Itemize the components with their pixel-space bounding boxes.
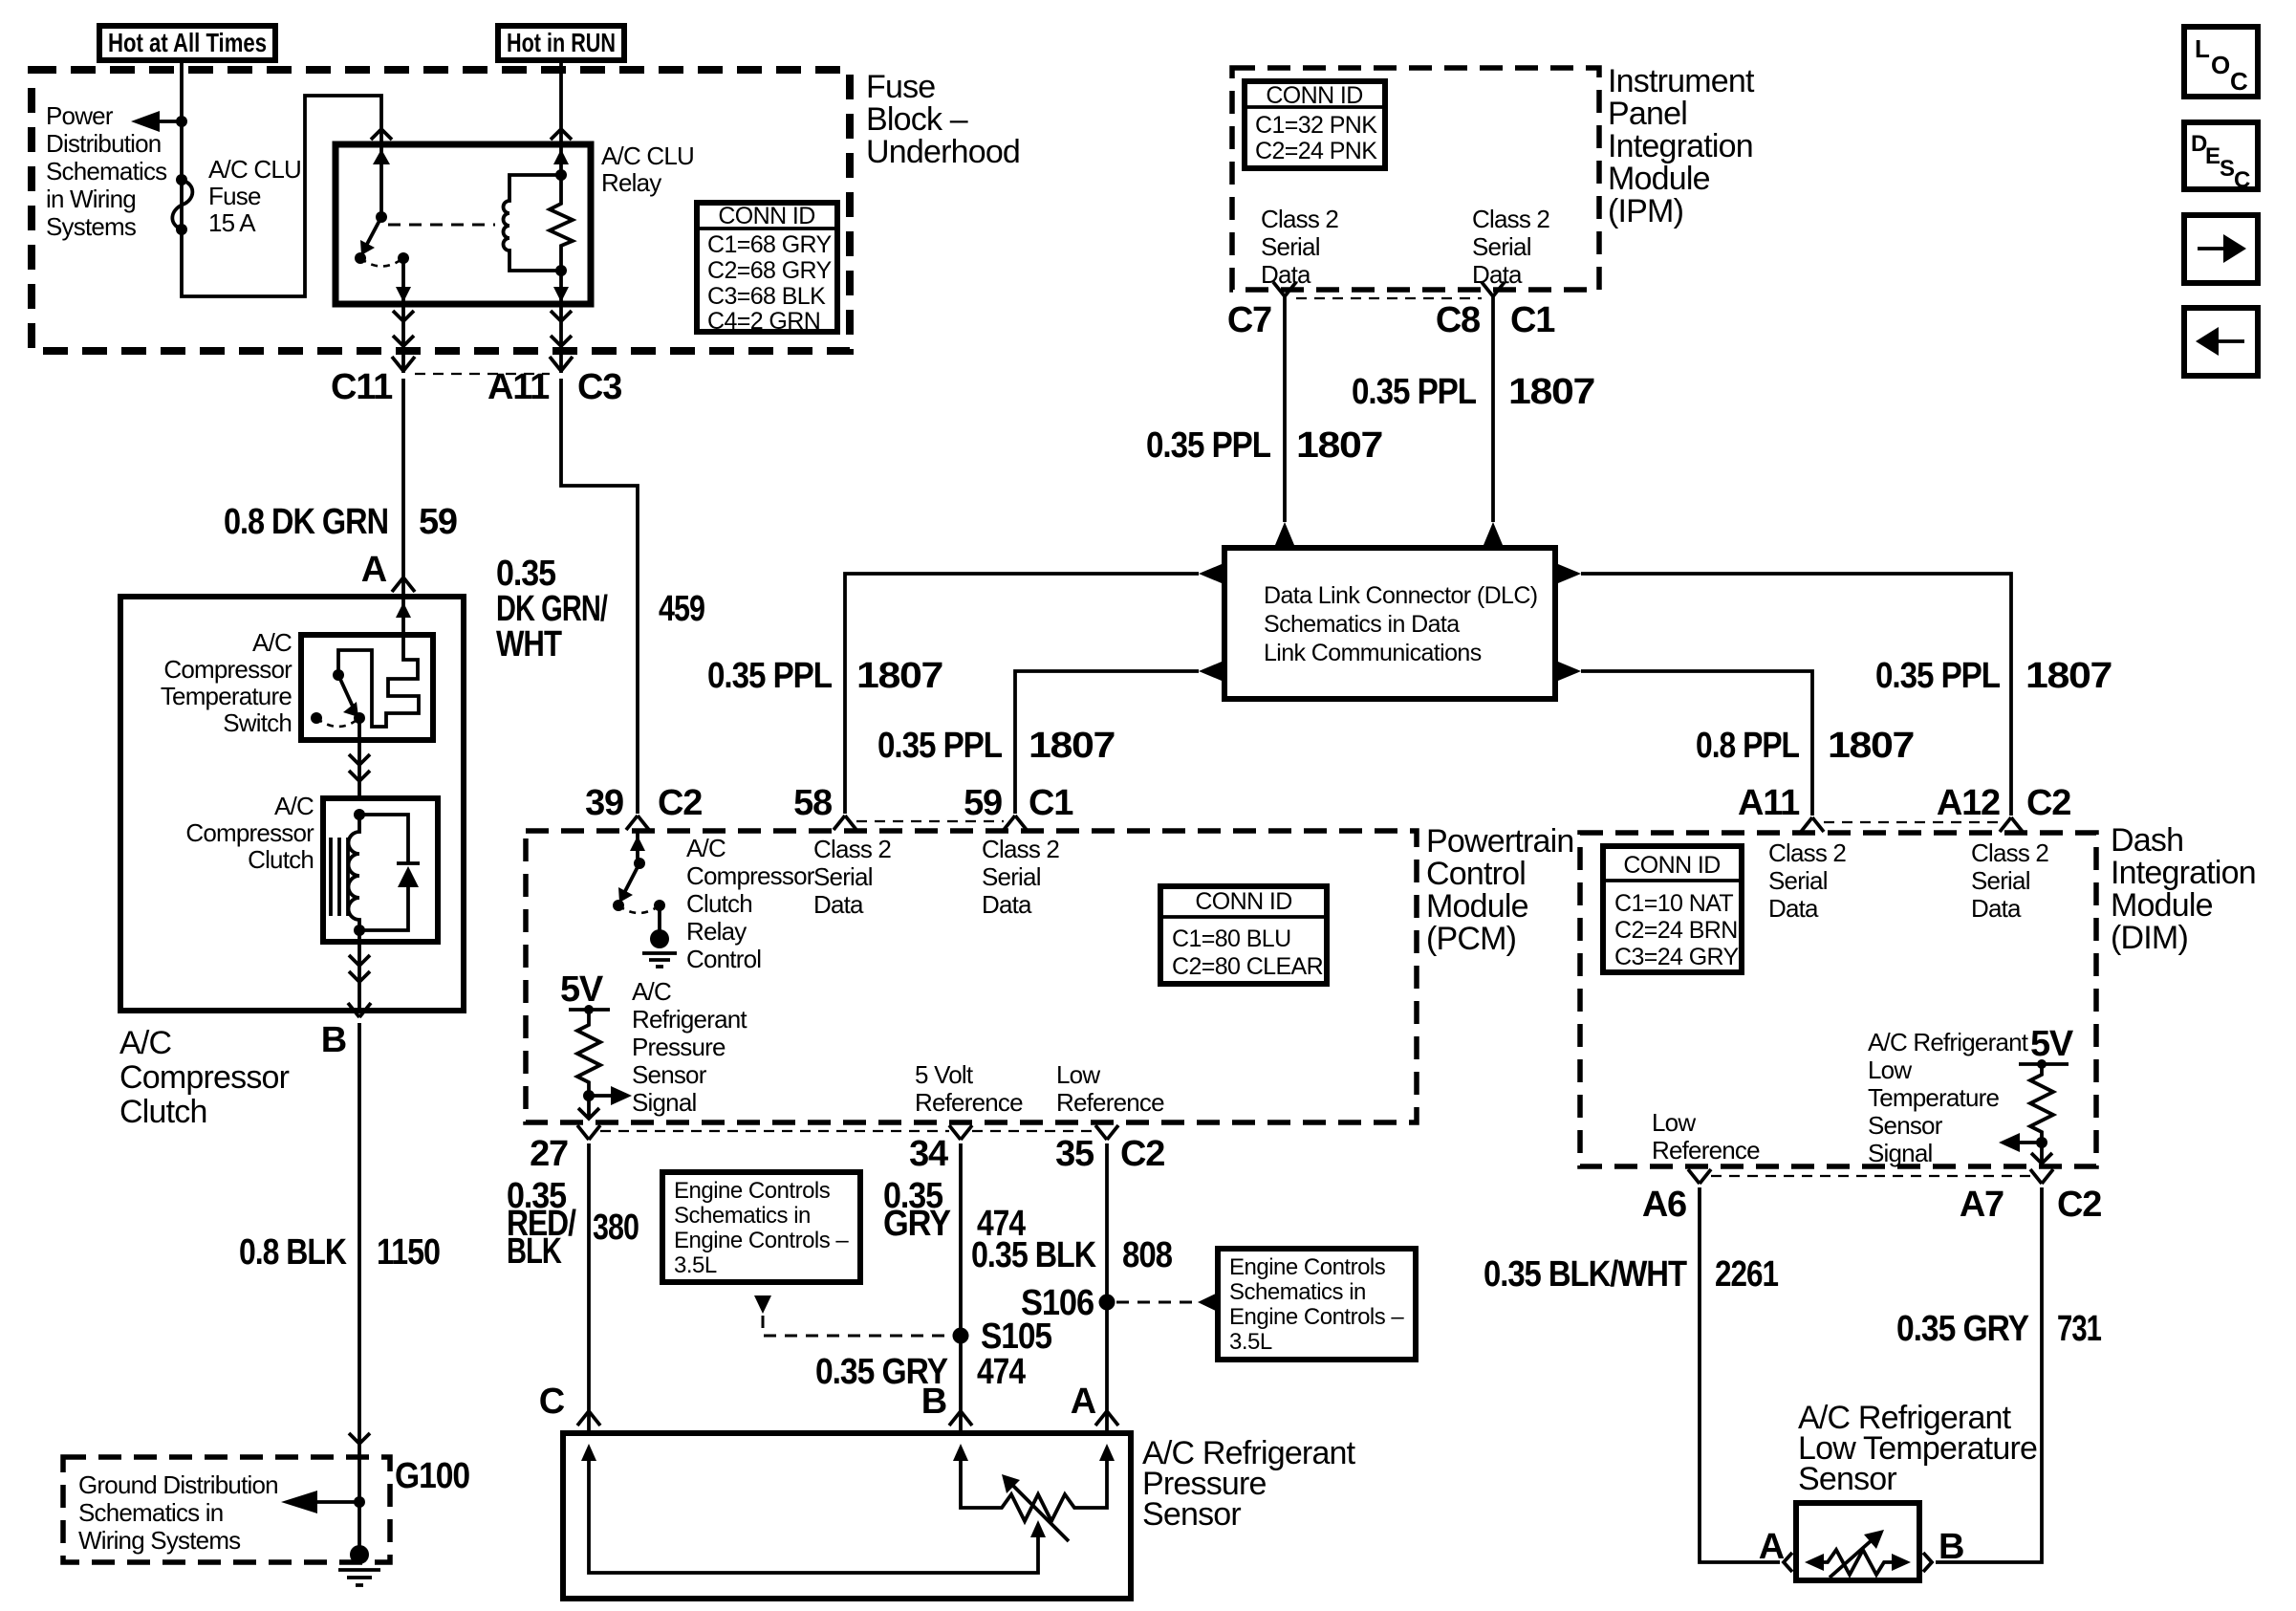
relay K1 resistor [550, 175, 573, 271]
svg-text:C2: C2 [2026, 783, 2070, 823]
svg-text:Module: Module [1426, 888, 1528, 925]
sensor pins C / B / A [577, 1411, 600, 1426]
svg-text:Engine Controls: Engine Controls [1229, 1254, 1386, 1280]
nav box DESC [2184, 122, 2258, 189]
svg-text:Panel: Panel [1608, 96, 1687, 132]
svg-text:Module: Module [1608, 161, 1710, 197]
svg-text:C11: C11 [331, 367, 393, 407]
svg-text:Power: Power [46, 101, 114, 130]
switch arm [333, 669, 344, 681]
relay K1 A/C CLU Relay [336, 144, 591, 304]
connector C11 / A11 forks [392, 357, 415, 371]
relay K1 switch contacts [379, 144, 383, 217]
ground tap arrow [316, 1500, 359, 1504]
svg-text:5 Volt: 5 Volt [915, 1060, 974, 1089]
svg-text:1807: 1807 [2025, 656, 2112, 696]
wire DLC to DIM pin A11 [1581, 671, 1812, 816]
svg-text:Data: Data [1472, 260, 1523, 289]
svg-text:Sensor: Sensor [1868, 1111, 1943, 1140]
svg-text:Fuse: Fuse [208, 182, 261, 210]
svg-text:Ground Distribution: Ground Distribution [78, 1470, 278, 1499]
ground G100 symbol [350, 1545, 369, 1564]
wire pin 27 to sensor pin C [587, 1143, 591, 1433]
svg-text:Wiring Systems: Wiring Systems [78, 1526, 241, 1555]
svg-text:0.8 DK GRN: 0.8 DK GRN [224, 502, 388, 542]
wire C3 to PCM pin 39 [561, 379, 638, 814]
wire from Hot in RUN [559, 60, 563, 144]
svg-text:Hot in RUN: Hot in RUN [507, 28, 616, 57]
svg-text:Schematics in: Schematics in [78, 1498, 223, 1527]
svg-text:1807: 1807 [856, 656, 942, 696]
svg-text:L: L [2195, 34, 2210, 63]
svg-text:1807: 1807 [1828, 726, 1914, 766]
svg-text:0.8 PPL: 0.8 PPL [1696, 726, 1800, 766]
wire A7 to sensor pin B [1936, 1187, 2042, 1562]
wire to ground point [357, 1457, 361, 1549]
wire C7 to DLC [1283, 296, 1287, 522]
svg-text:Module: Module [2111, 887, 2213, 924]
svg-text:A/C: A/C [252, 628, 292, 657]
DLC top arrowheads [1275, 522, 1294, 545]
svg-text:Integration: Integration [1608, 128, 1753, 164]
svg-text:A/C: A/C [632, 977, 671, 1006]
svg-text:Clutch: Clutch [686, 889, 752, 918]
coil L1 A/C Compressor Clutch [323, 798, 438, 942]
svg-text:B: B [921, 1382, 946, 1422]
svg-text:Data: Data [813, 890, 864, 919]
svg-text:Signal: Signal [632, 1088, 696, 1117]
svg-text:Compressor: Compressor [163, 655, 292, 684]
svg-text:(DIM): (DIM) [2111, 920, 2188, 956]
svg-text:Compressor: Compressor [686, 861, 815, 890]
svg-text:A6: A6 [1642, 1185, 1686, 1225]
wire switch to clutch coil [357, 718, 361, 798]
wire A6 to sensor pin A [1700, 1187, 1780, 1562]
svg-text:A: A [1071, 1382, 1096, 1422]
svg-text:Serial: Serial [1261, 232, 1320, 261]
svg-text:S106: S106 [1021, 1283, 1094, 1323]
svg-text:A11: A11 [487, 367, 550, 407]
svg-text:0.35 BLK/WHT: 0.35 BLK/WHT [1484, 1254, 1687, 1295]
wire pin B to G100 [357, 1023, 361, 1457]
svg-text:Serial: Serial [813, 862, 873, 891]
svg-text:Engine Controls –: Engine Controls – [1229, 1304, 1404, 1330]
svg-text:0.35 PPL: 0.35 PPL [877, 726, 1003, 766]
wire DLC to PCM pin 58 [845, 574, 1199, 814]
svg-text:C2: C2 [1120, 1134, 1164, 1174]
relay K1 coil [559, 144, 563, 175]
svg-text:C8: C8 [1436, 300, 1480, 340]
svg-text:C: C [2234, 167, 2250, 193]
svg-text:Serial: Serial [1971, 866, 2030, 895]
ground G100 dashed box [63, 1457, 390, 1562]
svg-text:808: 808 [1122, 1235, 1172, 1275]
svg-text:Relay: Relay [601, 168, 661, 197]
svg-text:C3=24 GRY: C3=24 GRY [1614, 944, 1740, 970]
connector C7 / C8 forks at IPM bottom [1273, 282, 1296, 296]
svg-text:Control: Control [1426, 856, 1526, 892]
svg-text:(IPM): (IPM) [1608, 193, 1683, 229]
svg-text:BLK: BLK [507, 1231, 562, 1272]
svg-text:O: O [2211, 51, 2230, 79]
dashed link to Engine Controls box (right) [1116, 1301, 1195, 1304]
svg-text:1807: 1807 [1029, 726, 1115, 766]
svg-text:1807: 1807 [1508, 372, 1594, 412]
svg-text:731: 731 [2057, 1309, 2102, 1349]
wire C11 to compressor pin A [401, 379, 405, 597]
svg-text:380: 380 [593, 1208, 639, 1248]
svg-text:C4=2 GRN: C4=2 GRN [707, 308, 820, 335]
relay output wires to C11 / C3 [401, 304, 405, 373]
svg-text:Engine Controls –: Engine Controls – [674, 1228, 849, 1253]
svg-text:A7: A7 [1960, 1185, 2004, 1225]
wire pin 34 to sensor pin B [959, 1143, 963, 1433]
svg-text:Sensor: Sensor [1142, 1496, 1241, 1533]
svg-text:Fuse: Fuse [866, 69, 935, 105]
wire pin 35 to sensor pin A [1105, 1143, 1109, 1433]
IPM: Instrument Panel Integration Module dashed box [1232, 68, 1599, 290]
svg-text:WHT: WHT [496, 624, 562, 664]
wire DLC to DIM pin A12 [1581, 574, 2011, 816]
relay control switch inside PCM [636, 831, 639, 861]
svg-text:Reference: Reference [1056, 1088, 1164, 1117]
nav box arrow left [2184, 308, 2258, 376]
svg-text:Serial: Serial [982, 862, 1041, 891]
sensor wiper return [589, 1487, 1038, 1573]
svg-text:Powertrain: Powertrain [1426, 823, 1574, 860]
CONN ID table (DIM) [1603, 846, 1742, 972]
svg-text:Data: Data [1261, 260, 1311, 289]
svg-text:C2=68 GRY: C2=68 GRY [707, 257, 833, 284]
CONN ID table (fuse block) [697, 203, 837, 332]
svg-text:Clutch: Clutch [248, 845, 314, 874]
svg-text:Data: Data [1971, 894, 2022, 923]
svg-text:Hot at All Times: Hot at All Times [108, 28, 267, 57]
svg-text:Class 2: Class 2 [1472, 205, 1549, 233]
dashed link to S105 [754, 1295, 771, 1314]
svg-text:CONN ID: CONN ID [1266, 82, 1362, 109]
DLC right arrowheads [1558, 564, 1581, 583]
svg-text:5V: 5V [2030, 1024, 2074, 1064]
svg-text:C2: C2 [2057, 1185, 2101, 1225]
svg-text:C3=68 BLK: C3=68 BLK [707, 283, 826, 310]
svg-text:Schematics: Schematics [46, 157, 167, 185]
svg-text:5V: 5V [560, 969, 604, 1010]
svg-text:Schematics in Data: Schematics in Data [1264, 611, 1460, 638]
wire to pin B [357, 930, 361, 1011]
svg-text:A: A [1759, 1527, 1785, 1567]
svg-text:Schematics in: Schematics in [674, 1203, 811, 1229]
svg-text:Reference: Reference [1652, 1136, 1760, 1165]
PCM bottom pins 27 / 34 / 35 C2 [577, 1125, 600, 1140]
fuse F1 A/C CLU Fuse 15 A [176, 174, 187, 185]
svg-text:CONN ID: CONN ID [1195, 888, 1291, 915]
svg-text:Temperature: Temperature [161, 682, 292, 710]
DIM: Dash Integration Module dashed box [1580, 833, 2096, 1166]
svg-text:Dash: Dash [2111, 822, 2183, 859]
svg-text:0.35: 0.35 [496, 554, 556, 594]
svg-text:Sensor: Sensor [632, 1060, 707, 1089]
ground symbol (PCM relay control) [658, 905, 661, 931]
svg-text:Control: Control [686, 945, 761, 973]
svg-text:Data: Data [1768, 894, 1819, 923]
Hot at All Times box [99, 26, 275, 60]
svg-text:(PCM): (PCM) [1426, 921, 1516, 957]
sensor box [1796, 1503, 1919, 1580]
svg-text:59: 59 [419, 502, 457, 542]
svg-text:Data: Data [982, 890, 1032, 919]
svg-text:Link Communications: Link Communications [1264, 640, 1482, 666]
svg-text:Class 2: Class 2 [813, 835, 891, 863]
svg-text:Sensor: Sensor [1798, 1461, 1896, 1497]
switch S1 A/C Compressor Temperature Switch [301, 635, 433, 740]
switch sensing element maze [338, 597, 419, 727]
DIM bottom pins A6 / A7 C2 [1688, 1169, 1711, 1184]
svg-text:Switch: Switch [223, 708, 292, 737]
node S105 splice [953, 1328, 969, 1344]
svg-text:A/C: A/C [119, 1025, 172, 1061]
svg-text:C1=68 GRY: C1=68 GRY [707, 231, 833, 258]
svg-text:A/C: A/C [274, 792, 314, 820]
sensor internal arrows [589, 1461, 1107, 1487]
svg-text:39: 39 [585, 783, 623, 823]
svg-text:B: B [321, 1020, 346, 1060]
diode D1 clutch suppression [359, 815, 408, 863]
svg-text:Distribution: Distribution [46, 129, 161, 158]
svg-text:Serial: Serial [1768, 866, 1828, 895]
svg-text:C2=24 PNK: C2=24 PNK [1255, 138, 1377, 164]
CONN ID table (PCM) [1160, 886, 1327, 984]
svg-text:34: 34 [909, 1134, 948, 1174]
svg-text:0.35 PPL: 0.35 PPL [1352, 372, 1477, 412]
svg-text:C3: C3 [577, 367, 621, 407]
pins A11 / A12 / C2 [1801, 817, 1824, 832]
svg-text:Schematics in: Schematics in [1229, 1279, 1366, 1305]
svg-text:59: 59 [964, 783, 1002, 823]
svg-text:Engine Controls: Engine Controls [674, 1178, 831, 1204]
svg-text:C2=80 CLEAR: C2=80 CLEAR [1172, 953, 1323, 980]
svg-text:Relay: Relay [686, 917, 747, 946]
svg-text:B: B [1939, 1527, 1963, 1567]
svg-text:C1=32 PNK: C1=32 PNK [1255, 112, 1377, 139]
svg-text:2261: 2261 [1715, 1254, 1779, 1295]
Engine Controls reference box (left) [662, 1172, 860, 1282]
svg-text:474: 474 [977, 1352, 1026, 1392]
svg-text:Data Link Connector (DLC): Data Link Connector (DLC) [1264, 582, 1538, 609]
svg-text:Low: Low [1652, 1108, 1696, 1137]
svg-text:Block –: Block – [866, 101, 968, 138]
svg-text:Integration: Integration [2111, 855, 2256, 891]
Hot in RUN box [498, 26, 624, 60]
A/C Refrigerant Pressure Sensor box [563, 1433, 1131, 1599]
svg-text:0.35 PPL: 0.35 PPL [707, 656, 833, 696]
svg-text:Clutch: Clutch [119, 1094, 207, 1130]
svg-text:0.35 BLK: 0.35 BLK [971, 1235, 1096, 1275]
svg-text:Signal: Signal [1868, 1139, 1932, 1167]
svg-text:A/C CLU: A/C CLU [208, 155, 301, 184]
svg-text:A/C CLU: A/C CLU [601, 142, 694, 170]
thermistor (low temp sensor element) [1809, 1550, 1906, 1575]
svg-text:Class 2: Class 2 [1768, 838, 1846, 867]
svg-text:A12: A12 [1937, 783, 2000, 823]
svg-text:Class 2: Class 2 [1261, 205, 1338, 233]
svg-text:Reference: Reference [915, 1088, 1023, 1117]
svg-text:S: S [2220, 156, 2235, 182]
wire C8 to DLC [1491, 296, 1495, 522]
svg-text:58: 58 [793, 783, 832, 823]
svg-text:459: 459 [659, 589, 704, 629]
svg-text:Pressure: Pressure [632, 1033, 726, 1061]
wire DLC to PCM pin 59 [1015, 671, 1199, 814]
pin 58 / 59 / C1 [834, 816, 856, 830]
svg-text:15 A: 15 A [208, 208, 256, 237]
nav box LOC [2184, 27, 2258, 97]
svg-text:C1=80 BLU: C1=80 BLU [1172, 925, 1291, 952]
nav box arrow right [2184, 215, 2258, 283]
svg-text:C1=10 NAT: C1=10 NAT [1614, 890, 1733, 917]
svg-text:C2=24 BRN: C2=24 BRN [1614, 917, 1738, 944]
svg-text:C2: C2 [658, 783, 702, 823]
potentiometer (pressure sensor element) [961, 1482, 1107, 1521]
svg-text:A/C Refrigerant: A/C Refrigerant [1868, 1028, 2029, 1056]
svg-text:0.8 BLK: 0.8 BLK [239, 1232, 347, 1273]
svg-text:1150: 1150 [377, 1232, 440, 1273]
svg-text:Low: Low [1056, 1060, 1100, 1089]
svg-text:Compressor: Compressor [119, 1059, 290, 1096]
node S106 splice [1099, 1295, 1116, 1311]
svg-text:0.35 PPL: 0.35 PPL [1875, 656, 2001, 696]
svg-text:G100: G100 [395, 1456, 469, 1496]
svg-text:Temperature: Temperature [1868, 1083, 1999, 1112]
svg-text:Systems: Systems [46, 212, 137, 241]
coil winding [354, 809, 365, 820]
svg-text:Instrument: Instrument [1608, 63, 1755, 99]
svg-text:Class 2: Class 2 [1971, 838, 2048, 867]
svg-text:C1: C1 [1510, 300, 1555, 340]
CONN ID table (IPM) [1245, 81, 1385, 168]
svg-text:Low: Low [1868, 1056, 1912, 1084]
svg-text:Refrigerant: Refrigerant [632, 1005, 747, 1034]
svg-text:C: C [539, 1382, 565, 1422]
svg-text:E: E [2205, 143, 2220, 169]
svg-text:Compressor: Compressor [185, 818, 314, 847]
svg-text:C1: C1 [1029, 783, 1073, 823]
pin 39 / C2 [626, 816, 649, 830]
svg-text:1807: 1807 [1296, 425, 1382, 466]
svg-text:CONN ID: CONN ID [1623, 852, 1720, 879]
svg-text:A: A [361, 550, 387, 590]
DLC left arrowheads [1199, 564, 1222, 583]
svg-text:DK GRN/: DK GRN/ [496, 589, 608, 629]
svg-text:A11: A11 [1738, 783, 1800, 823]
svg-text:A/C: A/C [686, 834, 726, 862]
svg-text:3.5L: 3.5L [1229, 1329, 1272, 1355]
node: power distribution tap [176, 116, 187, 127]
svg-text:GRY: GRY [883, 1204, 951, 1244]
svg-text:0.35 PPL: 0.35 PPL [1146, 425, 1271, 466]
svg-text:Serial: Serial [1472, 232, 1531, 261]
wire from Hot at All Times [182, 60, 381, 296]
svg-text:in Wiring: in Wiring [46, 185, 136, 213]
relay actuation dashed line [388, 224, 495, 227]
svg-text:C7: C7 [1227, 300, 1271, 340]
svg-text:27: 27 [530, 1134, 568, 1174]
Fuse Block - Underhood dashed box [32, 70, 850, 351]
A/C Compressor Clutch outer box [120, 597, 464, 1011]
svg-text:CONN ID: CONN ID [718, 203, 814, 229]
svg-text:0.35 GRY: 0.35 GRY [1896, 1309, 2029, 1349]
svg-text:3.5L: 3.5L [674, 1252, 717, 1278]
svg-text:35: 35 [1055, 1134, 1094, 1174]
svg-text:Underhood: Underhood [866, 134, 1020, 170]
DLC: Data Link Connector box [1224, 548, 1555, 699]
svg-text:C: C [2230, 67, 2248, 96]
svg-text:Class 2: Class 2 [982, 835, 1059, 863]
PCM: Powertrain Control Module dashed box [526, 831, 1417, 1122]
